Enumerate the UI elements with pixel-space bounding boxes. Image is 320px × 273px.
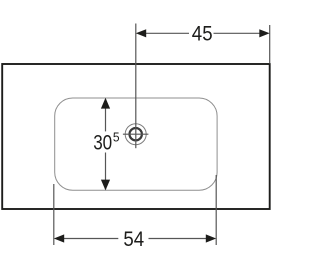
- svg-text:54: 54: [123, 227, 144, 251]
- svg-text:5: 5: [113, 130, 120, 145]
- svg-text:30: 30: [93, 131, 112, 155]
- svg-text:45: 45: [192, 22, 213, 46]
